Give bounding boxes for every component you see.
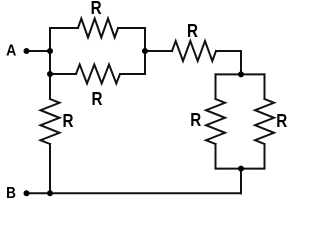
svg-text:B: B bbox=[6, 185, 16, 202]
svg-text:R: R bbox=[91, 0, 102, 18]
resistor R6 (right pair right) bbox=[255, 99, 274, 144]
svg-text:R: R bbox=[276, 111, 287, 131]
wire series right lead with corner drop bbox=[216, 51, 241, 74]
wire right pair right upper lead bbox=[264, 74, 266, 99]
svg-text:R: R bbox=[63, 111, 74, 131]
wire bottom bar of right pair bbox=[216, 168, 265, 170]
wire right pair left upper lead bbox=[215, 74, 217, 99]
wire left bus upper bbox=[49, 28, 51, 99]
junction dot bottom of right pair bbox=[238, 166, 244, 172]
resistor R2 (bottom branch) bbox=[76, 65, 120, 84]
junction dot left bus bottom branch bbox=[47, 71, 53, 77]
resistor R5 (right pair left) bbox=[206, 99, 225, 144]
wire drop to bottom bus bbox=[240, 169, 242, 194]
wire bottom branch left lead bbox=[50, 73, 76, 75]
resistor R3 (series) bbox=[172, 41, 216, 61]
wire top branch right lead bbox=[118, 27, 145, 29]
wire top branch left lead bbox=[50, 27, 78, 29]
wire right pair right lower lead bbox=[264, 144, 266, 169]
resistor R4 (vertical, left bus) bbox=[41, 99, 60, 144]
node B terminal dot bbox=[24, 190, 30, 196]
junction dot right of left pair bbox=[142, 48, 148, 54]
wire bottom bus bbox=[27, 192, 242, 194]
junction dot left bus at A bbox=[47, 48, 53, 54]
wire top bar of right pair bbox=[216, 73, 265, 75]
wire right vertical of left pair bbox=[144, 28, 146, 74]
wire series left lead bbox=[145, 50, 172, 52]
wire A lead bbox=[27, 50, 51, 52]
svg-text:R: R bbox=[187, 21, 198, 41]
wire left bus lower bbox=[49, 144, 51, 193]
node A terminal dot bbox=[24, 48, 30, 54]
svg-text:R: R bbox=[92, 89, 103, 109]
svg-text:R: R bbox=[190, 110, 201, 130]
wire bottom branch right lead bbox=[120, 73, 145, 75]
resistor R1 (top branch) bbox=[78, 19, 118, 38]
junction dot left bus at B bbox=[47, 190, 53, 196]
wire right pair left lower lead bbox=[215, 144, 217, 169]
junction dot top of right pair bbox=[238, 71, 244, 77]
svg-text:A: A bbox=[6, 42, 16, 59]
